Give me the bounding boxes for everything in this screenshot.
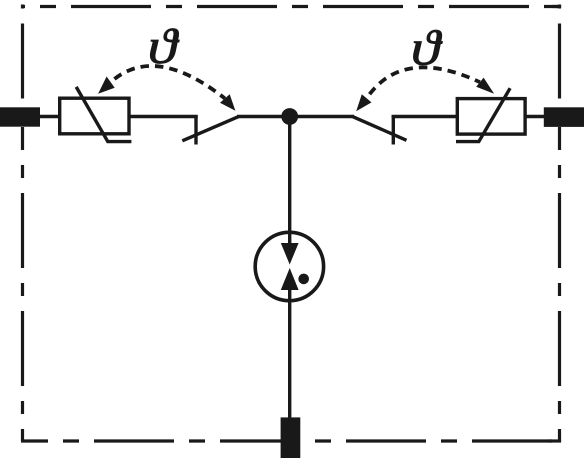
- spark gap F3 lower electrode arrow (points up): [281, 268, 299, 290]
- wire: varistor RV2 to terminal X2: [524, 115, 546, 118]
- arrowhead: left arc toward blade F1: [220, 94, 235, 111]
- enclosure border top side (dash-dot outline): [21, 5, 561, 8]
- wire: center node down to spark gap F3: [288, 117, 291, 247]
- wire: blade F1 to center node: [237, 115, 290, 118]
- thermal disconnector F2 fixed contact (right): [392, 115, 395, 145]
- enclosure border left side (dash-dot outline): [21, 5, 24, 442]
- enclosure border right side (dash-dot outline): [558, 5, 561, 442]
- terminal X3 (bottom, solid block): [281, 417, 301, 458]
- wire: disconnector F2 to varistor RV2: [392, 115, 458, 118]
- spark gap F3 upper electrode arrow (points down): [281, 243, 299, 265]
- thermal coupling arc right (dashed): [367, 67, 480, 98]
- wire: spark gap F3 to bottom terminal: [288, 288, 291, 418]
- label: theta (left thermal coupling): [148, 18, 180, 74]
- arrowhead: left arc toward varistor RV1: [98, 77, 115, 94]
- terminal X1 (left, solid block): [0, 107, 40, 126]
- varistor RV2 (right MOV, box with diagonal): [456, 88, 525, 141]
- svg-text:ϑ: ϑ: [148, 18, 180, 74]
- thermal disconnector F1 fixed contact (left): [194, 115, 197, 145]
- enclosure border bottom side (dash-dot outline): [21, 439, 561, 442]
- spark gap F3 trigger dot: [298, 274, 309, 285]
- arrowhead: right arc toward blade F2: [356, 94, 371, 111]
- label: theta (right thermal coupling): [411, 20, 443, 76]
- wire: varistor RV1 to thermal disconnector F1: [128, 115, 198, 118]
- thermal coupling arc left (dashed): [111, 66, 225, 99]
- thermal disconnector F2 switch blade (right): [353, 117, 406, 141]
- thermal disconnector F1 switch blade (left): [182, 117, 238, 141]
- terminal X2 (right, solid block): [544, 107, 584, 127]
- arrowhead: right arc toward varistor RV2: [476, 78, 494, 94]
- spark gap F3 body (triggered spark gap circle): [255, 232, 323, 300]
- varistor RV1 (left MOV, box with diagonal): [60, 87, 132, 142]
- wire: terminal X1 to varistor RV1: [39, 115, 62, 118]
- wire: center node to thermal disconnector F2: [290, 115, 354, 118]
- node: center junction dot: [281, 108, 298, 125]
